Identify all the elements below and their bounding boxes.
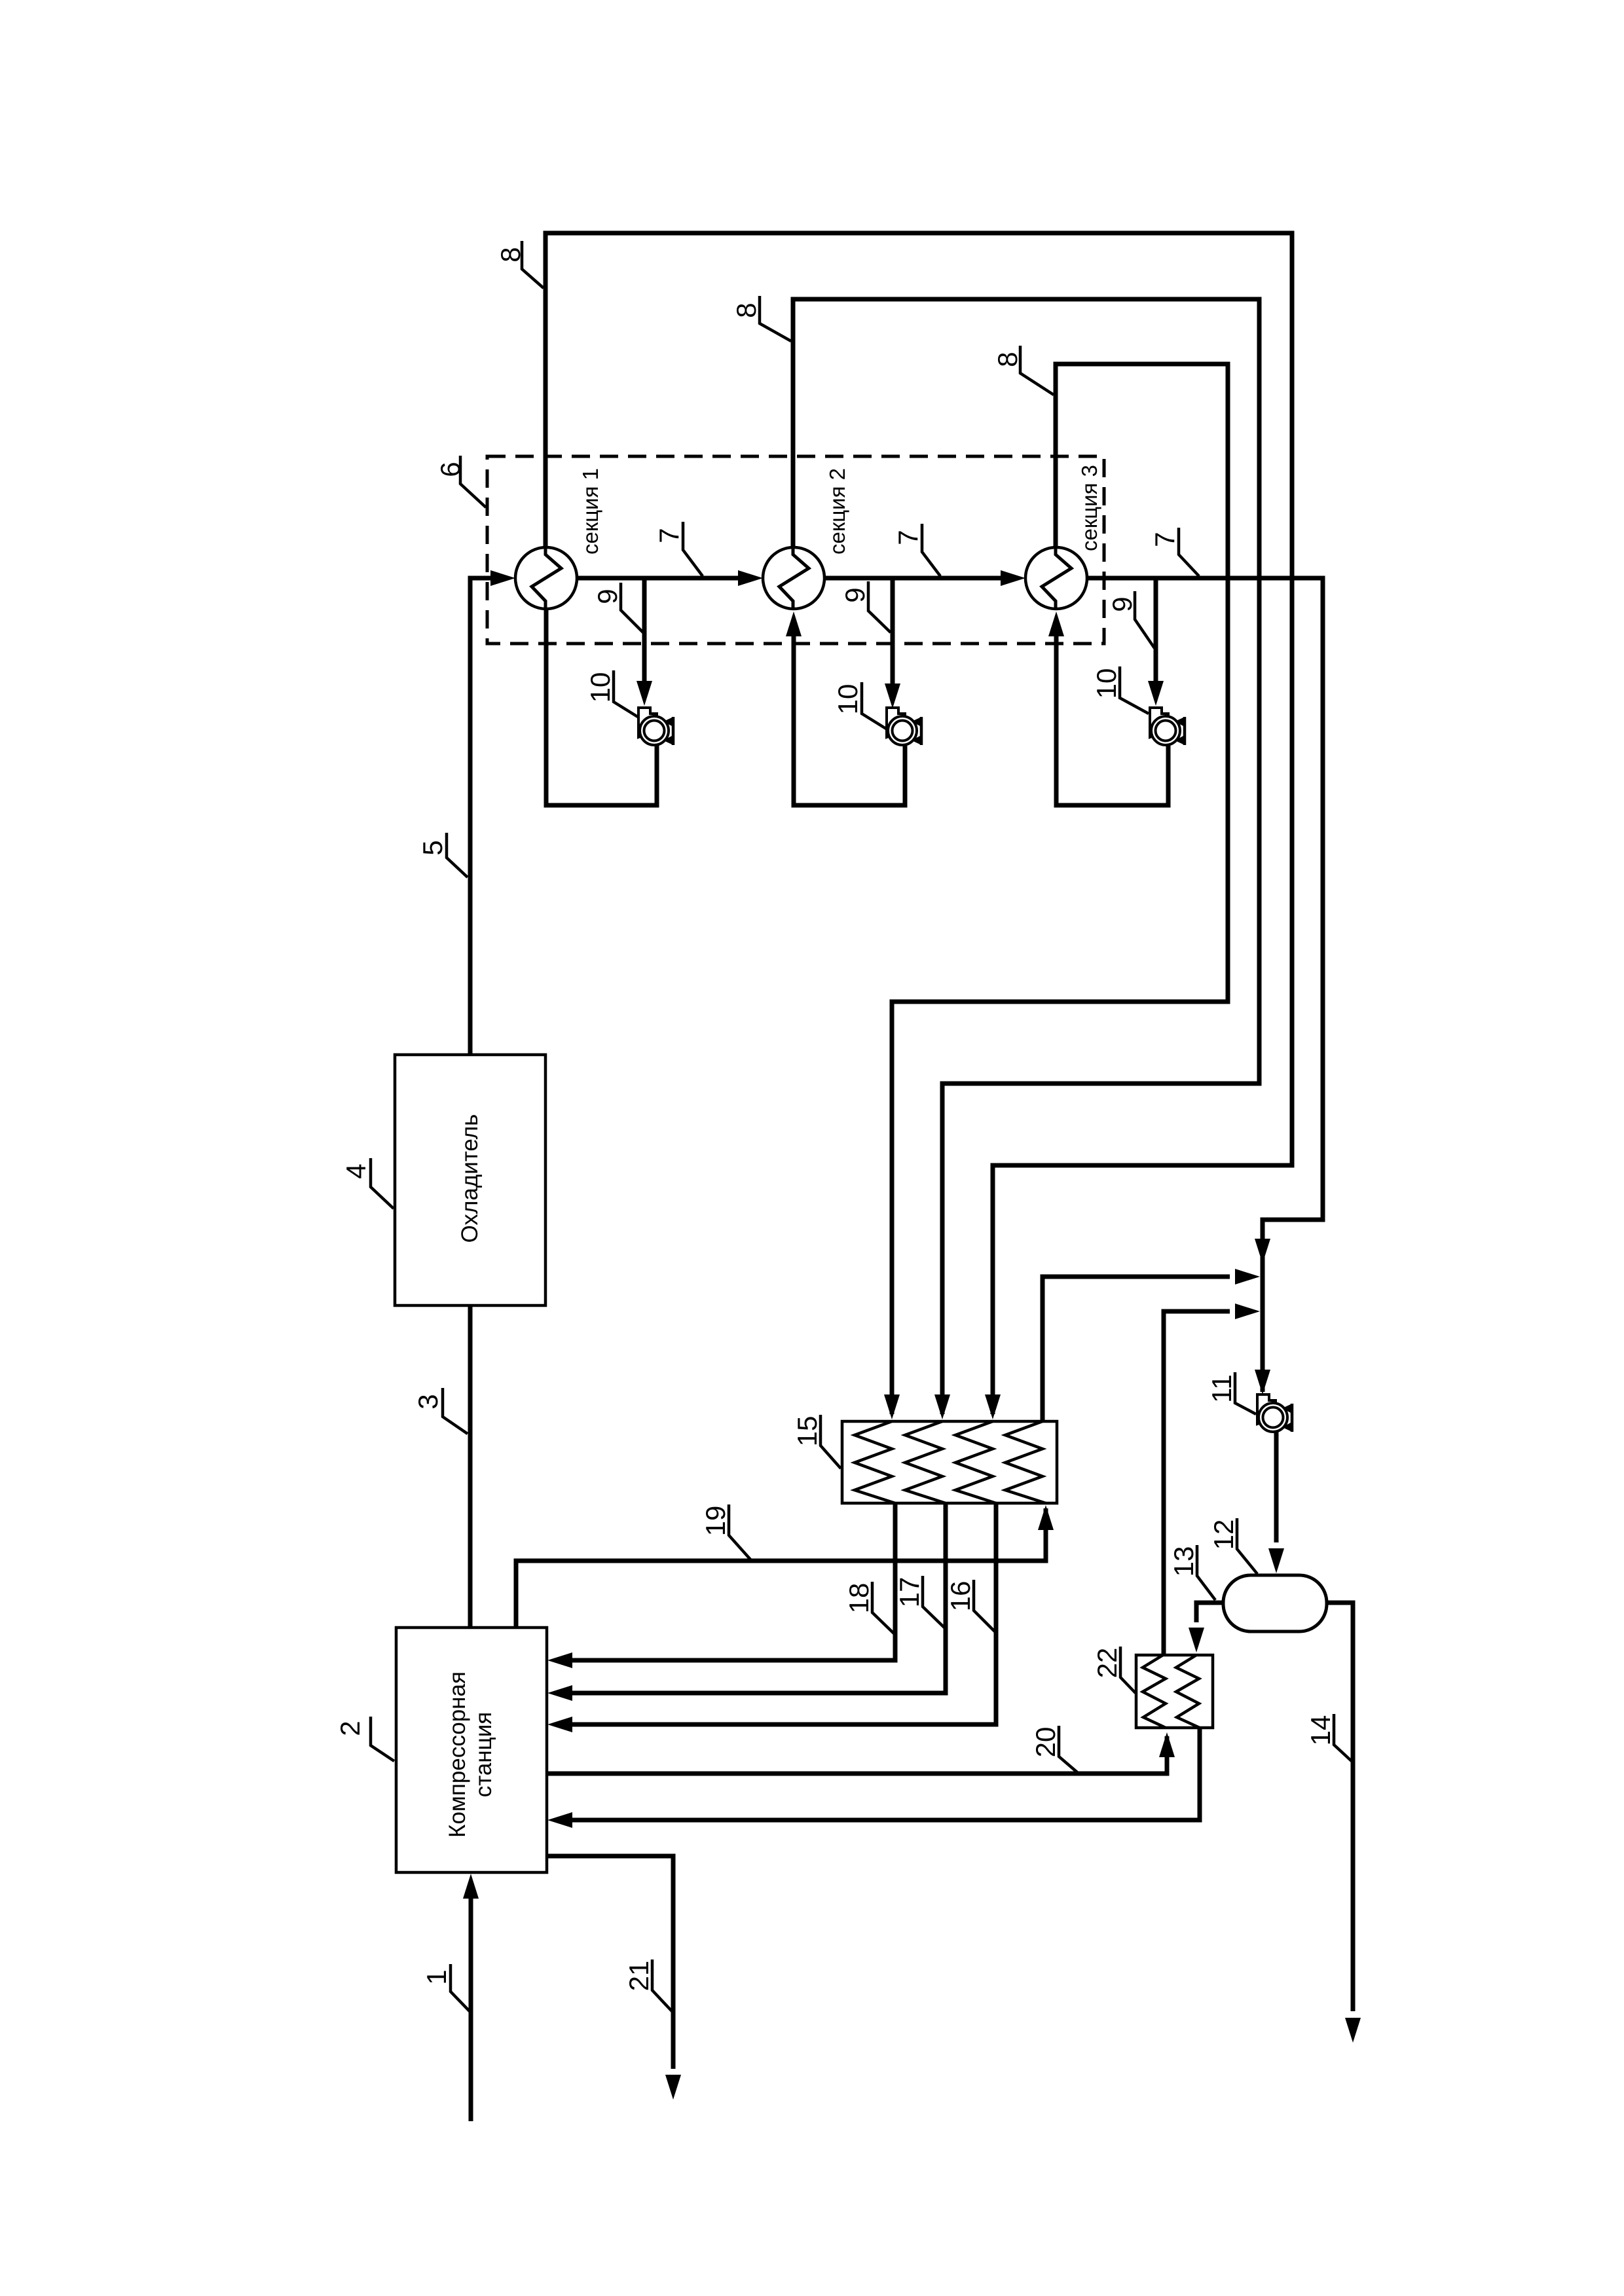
recycle loop wire section 1 [546, 609, 657, 805]
node label 10 second [832, 682, 886, 729]
wire 8 from section 3 to exchanger 15 [892, 364, 1228, 1414]
exchanger 15 coil 3 [955, 1421, 996, 1503]
wire 9 branch to pump 10 of section 1 [642, 578, 647, 683]
wire 13 drum 12 to exchanger 22 [1196, 1603, 1223, 1622]
node label 13 [1168, 1545, 1215, 1600]
svg-text:10: 10 [585, 672, 616, 703]
node label 11 [1206, 1372, 1256, 1414]
svg-text:4: 4 [341, 1163, 371, 1178]
svg-text:22: 22 [1092, 1648, 1122, 1679]
wire feed 1 into compressor station [469, 1895, 473, 2121]
node label 17 [894, 1576, 944, 1628]
wire 16 exchanger 15 to compressor station [572, 1503, 996, 1724]
drum 12 [1223, 1575, 1327, 1631]
node label 22 [1092, 1647, 1135, 1693]
svg-text:8: 8 [731, 302, 762, 318]
svg-text:9: 9 [1107, 596, 1137, 611]
svg-text:9: 9 [840, 587, 870, 602]
node label 18 [843, 1582, 894, 1633]
node label 8 first [495, 241, 544, 288]
exchanger 22 coil 2 [1176, 1655, 1200, 1728]
svg-text:секция 3: секция 3 [1077, 465, 1101, 551]
node label 6 [435, 456, 486, 507]
wire 20 compressor station to exchanger 22 [547, 1736, 1167, 1774]
wire pump 11 to drum 12 [1274, 1431, 1279, 1542]
exchanger 15 coil 2 [905, 1421, 946, 1503]
heat-exchange section circle 2 [763, 547, 824, 609]
node label 7 third [1149, 528, 1199, 576]
node label 21 [623, 1959, 672, 2011]
node label 10 third [1091, 666, 1149, 714]
wire from exchanger 15 to junction before pump 11 [1043, 1277, 1230, 1421]
svg-text:1: 1 [421, 1969, 452, 1984]
node label 7 second [893, 524, 940, 576]
svg-text:Компрессорная: Компрессорная [445, 1671, 470, 1838]
svg-text:7: 7 [1149, 532, 1180, 547]
wire 19 compressor station to exchanger 15 [516, 1508, 1046, 1627]
svg-text:17: 17 [894, 1577, 925, 1608]
svg-text:12: 12 [1208, 1520, 1239, 1550]
node label 4 [341, 1158, 394, 1209]
node label 8 second [731, 296, 791, 341]
node label 9 first [592, 583, 643, 632]
exchanger 15 box [842, 1421, 1057, 1503]
node label 9 second [840, 581, 891, 632]
node label 1 [421, 1964, 470, 2011]
node label 16 [945, 1580, 995, 1631]
dashed boundary box 6 [487, 456, 1104, 644]
wire 7 section1 to section2 [577, 576, 740, 581]
wire 7 section2 to section3 [824, 576, 1003, 581]
wire 18 exchanger 15 to compressor station [572, 1503, 895, 1660]
svg-text:11: 11 [1206, 1374, 1237, 1403]
node label 14 [1305, 1714, 1352, 1761]
node label 7 first [654, 522, 703, 576]
svg-text:5: 5 [417, 840, 448, 855]
svg-text:20: 20 [1030, 1727, 1061, 1758]
wire 5 cooler to section 1 [470, 578, 479, 1055]
pump 10 section 3 [1150, 708, 1185, 745]
svg-text:7: 7 [893, 530, 923, 545]
svg-text:3: 3 [413, 1394, 443, 1409]
svg-text:секция 2: секция 2 [825, 468, 849, 555]
cooler box 4 [395, 1055, 545, 1305]
svg-text:10: 10 [1091, 668, 1122, 699]
heat-exchange section circle 1 [515, 547, 577, 609]
compressor station box 2 [396, 1628, 547, 1872]
svg-text:18: 18 [843, 1583, 874, 1614]
svg-text:9: 9 [592, 589, 623, 604]
wire from exchanger 22 to junction before pump 11 [1164, 1311, 1230, 1655]
svg-text:2: 2 [335, 1721, 365, 1736]
recycle loop wire section 3 [1056, 634, 1168, 805]
node label 8 third [992, 346, 1054, 395]
svg-text:8: 8 [992, 352, 1023, 367]
wire 7 after section 3 down to pump 11 junction [1087, 578, 1323, 1392]
node label 12 [1208, 1518, 1257, 1574]
svg-text:7: 7 [654, 528, 684, 543]
heat-exchange section circle 3 [1025, 547, 1087, 609]
svg-text:Охладитель: Охладитель [457, 1114, 483, 1243]
svg-text:станция: станция [471, 1712, 496, 1797]
exchanger 22 box [1136, 1655, 1213, 1728]
svg-text:16: 16 [945, 1581, 976, 1612]
wire 21 compressor station purge outlet [547, 1856, 673, 2069]
wire 14 drum 12 to product outlet [1327, 1603, 1353, 2011]
svg-text:13: 13 [1168, 1546, 1199, 1577]
wire 8 from section 2 to exchanger 15 [793, 299, 1259, 1414]
wire 8 from section 1 to exchanger 15 [545, 233, 1292, 1414]
recycle loop wire section 2 [794, 634, 905, 805]
node label 10 first [585, 670, 638, 717]
svg-text:19: 19 [700, 1506, 731, 1537]
svg-text:секция 1: секция 1 [578, 468, 602, 555]
wire 17 exchanger 15 to compressor station [572, 1503, 946, 1693]
wire exchanger 22 return to compressor station [572, 1728, 1200, 1820]
pump 10 section 1 [638, 708, 673, 745]
svg-text:21: 21 [623, 1961, 654, 1992]
exchanger 15 coil 1 [855, 1421, 895, 1503]
svg-text:10: 10 [832, 684, 863, 715]
wire 3 compressor station to cooler [468, 1305, 473, 1627]
svg-text:14: 14 [1305, 1715, 1336, 1746]
node label 2 [335, 1717, 394, 1761]
node label 19 [700, 1504, 750, 1559]
pump 10 section 2 [887, 708, 921, 745]
node label 3 [413, 1388, 468, 1434]
node label 20 [1030, 1726, 1077, 1772]
compressor station label text [445, 1671, 496, 1838]
exchanger 22 coil 1 [1143, 1655, 1166, 1728]
pump 11 [1257, 1394, 1292, 1432]
node label 5 [417, 833, 468, 877]
node label 9 third [1107, 591, 1154, 648]
wire 9 branch to pump 10 of section 2 [891, 578, 895, 686]
exchanger 15 coil 4 [1005, 1421, 1046, 1503]
svg-text:15: 15 [792, 1416, 822, 1447]
wire 9 branch to pump 10 of section 3 [1154, 578, 1158, 683]
node label 15 [792, 1415, 841, 1468]
